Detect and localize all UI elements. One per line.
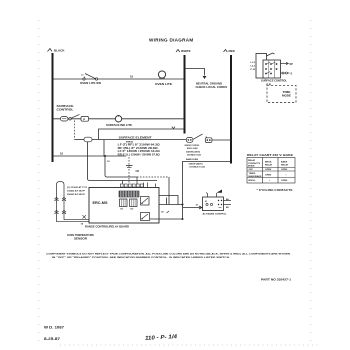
svg-text:MODE: MODE — [248, 166, 255, 168]
svg-text:W D. 1087: W D. 1087 — [44, 325, 65, 330]
svg-text:COMPONENT SYMBOLS DO NOT REFLE: COMPONENT SYMBOLS DO NOT REFLECT TRUE CO… — [46, 253, 291, 256]
wire red rail — [230, 55, 232, 164]
wire surface element run — [92, 139, 187, 141]
svg-text:BAKE/BAKE: BAKE/BAKE — [249, 175, 263, 178]
svg-text:CK: CK — [136, 169, 140, 173]
svg-text:RANGE CONTROL/RELAY BOARD: RANGE CONTROL/RELAY BOARD — [85, 225, 129, 229]
node V tick — [172, 127, 175, 129]
node PB label — [261, 80, 288, 86]
wire junction drop — [105, 157, 137, 178]
wire alt bake lead — [183, 205, 203, 210]
wire PB top lead — [267, 53, 275, 56]
svg-text:BROIL: BROIL — [249, 180, 256, 182]
svg-text:SURFACE IND LITE: SURFACE IND LITE — [106, 124, 132, 127]
svg-text:BROIL: BROIL — [265, 162, 272, 164]
svg-text:PART NO 335427-1: PART NO 335427-1 — [261, 278, 292, 282]
svg-text:3400W (240V): 3400W (240V) — [186, 150, 200, 153]
svg-text:CHECK LOCAL CODES: CHECK LOCAL CODES — [196, 86, 228, 89]
svg-text:SURFACE ELEMENT: SURFACE ELEMENT — [119, 135, 152, 139]
svg-text:L2-3: L2-3 — [251, 65, 256, 67]
relay K1 — [120, 199, 128, 211]
component CT oval — [61, 117, 68, 121]
svg-text:RELAY: RELAY — [248, 159, 256, 162]
svg-text:TIMED: TIMED — [249, 173, 256, 175]
wire black rail — [52, 53, 54, 162]
svg-text:RED: RED — [229, 49, 236, 53]
svg-text:L1-2: L1-2 — [251, 62, 256, 64]
wire sensor lead upper — [64, 219, 89, 221]
wire relay pin stubs — [144, 183, 156, 188]
svg-text:*: * — [269, 181, 270, 183]
node L1 label BLACK — [48, 49, 66, 53]
node junction — [104, 155, 106, 157]
wire oven lite row — [53, 78, 185, 80]
wire line B drop — [103, 140, 105, 157]
wire sensor lead lower — [57, 221, 90, 223]
wire punch dots bottom — [60, 344, 320, 346]
wire punch dots right — [310, 20, 312, 345]
capacitor CK dashed lead — [128, 157, 130, 184]
component time mode dashed box — [267, 85, 296, 102]
wire neutral ground branch — [185, 69, 205, 76]
wire dashed drop to surface element — [73, 121, 75, 140]
node broil bake labels — [185, 144, 206, 168]
svg-text:(C) 1100Ω AT 77°F: (C) 1100Ω AT 77°F — [67, 186, 88, 189]
component relay chart table — [247, 158, 295, 184]
wire broil to red rail — [212, 139, 231, 141]
svg-text:OPEN: OPEN — [281, 169, 288, 171]
component SE oval — [84, 137, 92, 142]
wire dashed bus branch — [137, 176, 169, 178]
svg-text:* CYCLING CONTACTS: * CYCLING CONTACTS — [257, 188, 293, 192]
svg-text:DOUBLE 8.2Ω: DOUBLE 8.2Ω — [187, 154, 201, 156]
node sensor break marks — [55, 197, 67, 213]
svg-text:RELAY: RELAY — [265, 164, 273, 167]
svg-text:SURFACE CONTROL: SURFACE CONTROL — [261, 80, 288, 83]
svg-text:BLACK: BLACK — [54, 49, 65, 53]
svg-text:SURFACE CONTROL: SURFACE CONTROL — [185, 144, 201, 147]
wire PB right lead CS — [281, 72, 293, 76]
svg-text:ERC-MS: ERC-MS — [93, 201, 109, 205]
relay K2 — [130, 199, 138, 211]
relay contact bake — [141, 213, 150, 221]
switch oven lite sw — [80, 74, 102, 86]
svg-text:OVEN LITE: OVEN LITE — [155, 83, 172, 86]
svg-text:P-10: P-10 — [250, 69, 255, 71]
lamp oven lite — [155, 71, 172, 86]
svg-text:WIRING DIAGRAM: WIRING DIAGRAM — [149, 38, 194, 43]
component surface control PB inner — [263, 60, 281, 78]
component sensor loop — [57, 182, 65, 222]
svg-text:RF (BL) 8″ 2100W 28.8Ω: RF (BL) 8″ 2100W 28.8Ω — [118, 148, 158, 150]
switch broil contacts — [186, 134, 212, 143]
wire punch dots left — [38, 20, 40, 345]
wire black rail tail — [53, 155, 127, 157]
svg-text:*: * — [286, 175, 287, 177]
node PB pin labels — [250, 62, 255, 71]
svg-text:OPEN: OPEN — [265, 169, 272, 171]
wire board out broil — [159, 204, 183, 206]
wire board out upper — [159, 196, 178, 205]
wire PB right lead SP — [281, 62, 294, 66]
wire stub — [166, 198, 168, 205]
ground — [196, 76, 228, 89]
node surface control label — [57, 105, 75, 112]
svg-text:2600W (240V): 2600W (240V) — [189, 162, 203, 165]
node element ratings text — [118, 141, 160, 156]
svg-text:ALT BAKE CONTROL: ALT BAKE CONTROL — [203, 213, 228, 216]
svg-text:NEUTRAL GROUND: NEUTRAL GROUND — [196, 82, 222, 85]
wire link to SE — [74, 139, 84, 141]
svg-text:OPEN: OPEN — [281, 180, 288, 182]
svg-text:LF 6″ 1300W / 2500W 44.2Ω: LF 6″ 1300W / 2500W 44.2Ω — [118, 150, 160, 153]
relay contact broil — [141, 197, 150, 206]
svg-text:8-25-87: 8-25-87 — [44, 337, 60, 341]
switch surface control sw — [69, 114, 89, 121]
svg-text:BAKE: BAKE — [281, 161, 288, 164]
svg-text:2560Ω AT 650°F: 2560Ω AT 650°F — [67, 193, 86, 196]
svg-text:CONTROL: CONTROL — [57, 109, 75, 112]
wire board out low — [150, 218, 183, 220]
node N label WHITE — [176, 49, 191, 53]
svg-text:SP: SP — [290, 63, 294, 66]
svg-text:SENSOR: SENSOR — [74, 238, 87, 241]
svg-text:RELAY: RELAY — [281, 164, 289, 167]
svg-text:MSS: MSS — [126, 141, 134, 143]
node junction low — [182, 218, 184, 220]
svg-text:OFF: OFF — [249, 169, 254, 171]
wire surface ind lite row — [53, 118, 185, 120]
node relay chart cells — [248, 159, 289, 183]
node sensor label — [67, 234, 94, 241]
wire bus drop right — [168, 177, 170, 205]
wire alt bake right leads — [224, 198, 232, 209]
svg-text:CONTACTS: CONTACTS — [248, 162, 261, 165]
wire surface element return — [99, 129, 185, 140]
svg-text:MODE: MODE — [282, 95, 291, 98]
svg-text:RELAY CHART 240 V. BAKE: RELAY CHART 240 V. BAKE — [247, 153, 293, 157]
wire bake element — [183, 162, 232, 220]
svg-text:IN "OFF" OR "RELAXED" POSITION: IN "OFF" OR "RELAXED" POSITION. SEE INDI… — [52, 256, 231, 259]
wire transformer pins — [120, 177, 143, 187]
node X crossing — [83, 215, 86, 218]
svg-text:LF (T) RF1 8″ 2100W 64.3Ω: LF (T) RF1 8″ 2100W 64.3Ω — [118, 143, 160, 146]
node junction bake — [182, 204, 184, 206]
component alt bake control — [203, 190, 224, 211]
transformer T1 — [119, 191, 139, 197]
svg-text:TIME: TIME — [283, 91, 292, 94]
component board ERC — [89, 188, 159, 224]
capacitor CK — [126, 166, 139, 174]
svg-text:BROIL ELEM: BROIL ELEM — [187, 148, 198, 150]
wire SE drop — [88, 142, 158, 181]
svg-text:OPEN: OPEN — [265, 174, 272, 176]
lamp surface ind lite — [106, 115, 132, 127]
node tick — [167, 211, 170, 213]
node PB contacts — [265, 62, 277, 74]
svg-text:1654Ω AT 350°F: 1654Ω AT 350°F — [67, 189, 86, 192]
node L2 label RED — [224, 49, 236, 53]
svg-text:P: P — [83, 117, 85, 121]
node sensor ratings — [67, 186, 88, 196]
component surface control PB outer — [256, 54, 267, 79]
svg-text:DOUBLE 19.2Ω: DOUBLE 19.2Ω — [190, 166, 206, 168]
svg-text:WHITE: WHITE — [181, 49, 191, 53]
svg-text:BAKE ELEM: BAKE ELEM — [186, 158, 198, 161]
wire white rail — [184, 55, 186, 134]
svg-text:OVEN LITE SW: OVEN LITE SW — [80, 82, 102, 85]
